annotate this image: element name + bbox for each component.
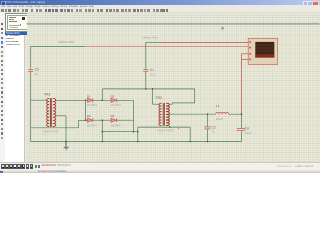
- wire C2 top branch: [207, 114, 209, 126]
- wire C4 top branch: [241, 114, 243, 128]
- minimap window: [5, 13, 29, 31]
- transformer TR1: [47, 98, 56, 127]
- junction node (102.3,131.7): [102, 131, 104, 133]
- svg-text:10uH: 10uH: [216, 117, 223, 121]
- diode D3: [88, 118, 93, 122]
- capacitor C1: [143, 69, 148, 71]
- junction node (85.5,120.2): [85, 119, 87, 121]
- marker dot: [222, 27, 224, 29]
- device list selected row: [5, 32, 27, 35]
- junction node (190.2,141.5): [189, 141, 191, 143]
- wire drop to rail right: [189, 127, 191, 141]
- svg-text:TR2: TR2: [156, 96, 163, 100]
- inductor L1: [216, 112, 229, 114]
- bottom strip: [0, 170, 320, 174]
- wire left vertical rail lower: [30, 74, 32, 141]
- wire L1 to C4 node: [229, 113, 242, 115]
- wire D3-D4: [94, 119, 111, 121]
- wire panel output vertical red: [241, 54, 243, 114]
- wire bridge bottom output vertical: [101, 120, 103, 141]
- junction node (207.5,114.2): [207, 113, 209, 115]
- schematic svg: [0, 0, 320, 173]
- wire C1 top branch: [145, 42, 147, 69]
- junction node (207.5,141.5): [207, 141, 209, 143]
- minimap blob (solar panel): [22, 17, 25, 20]
- svg-text:240Vac 50Hz: 240Vac 50Hz: [58, 40, 75, 44]
- wire C2 bottom branch: [207, 129, 209, 141]
- capacitor C2: [204, 127, 211, 129]
- wire bridge top output vertical: [101, 89, 103, 100]
- left mode icon strip: [0, 12, 5, 162]
- junction node (145.8,88.9): [145, 88, 147, 90]
- svg-text:1:1: 1:1: [44, 134, 48, 137]
- wire TR2 secondary out: [169, 113, 215, 115]
- junction node (85.5,100.3): [85, 100, 87, 102]
- wire TR1 secondary mid stub: [56, 115, 66, 117]
- wire D4 right: [117, 119, 134, 121]
- wire TR2 bottom pins: [138, 126, 190, 128]
- svg-text:1N4007: 1N4007: [111, 103, 122, 107]
- wire bridge right vertical: [133, 100, 135, 132]
- left panel: [5, 12, 27, 14]
- ground: [65, 142, 67, 147]
- wire left vertical rail upper: [30, 46, 32, 67]
- svg-text:1:1: 1:1: [159, 132, 163, 135]
- capacitor C3: [28, 68, 33, 75]
- svg-text:D1: D1: [87, 95, 91, 99]
- wire TR2 left top feed: [153, 89, 160, 104]
- wire top connector: [102, 88, 194, 90]
- wire C1 bottom branch: [145, 72, 147, 89]
- junction node (241.5,114.2): [241, 113, 243, 115]
- svg-text:TR1: TR1: [44, 92, 51, 96]
- capacitor C4: [237, 129, 245, 131]
- wire D3 row left: [79, 119, 88, 121]
- svg-text:1u: 1u: [212, 129, 216, 133]
- svg-text:+: +: [178, 126, 180, 130]
- wire bridge low horizontal: [102, 131, 138, 133]
- svg-text:2u2: 2u2: [150, 72, 155, 76]
- wire rail A red to panel pin 1: [159, 41, 248, 43]
- menu bar: [0, 5, 320, 9]
- junction node (152.6,88.9): [152, 88, 154, 90]
- junction node (102.3,141.5): [102, 141, 104, 143]
- junction node (137.8,131.7): [137, 131, 139, 133]
- wire rail A green: [146, 41, 159, 43]
- svg-text:D2: D2: [111, 95, 115, 99]
- wire bridge left vertical: [85, 100, 87, 120]
- junction node (102.3,100.3): [102, 100, 104, 102]
- wire rail B green (mains left): [31, 46, 85, 48]
- wire TR2 right top loop: [169, 89, 195, 104]
- wire TR1 mid drop to rail: [65, 116, 67, 142]
- solar panel PV1: [248, 38, 278, 64]
- wire drop to rail left: [137, 127, 139, 141]
- canvas: [27, 12, 320, 162]
- svg-text:D3: D3: [87, 114, 91, 118]
- junction node (137.8,141.5): [137, 141, 139, 143]
- wire D2 right: [117, 99, 134, 101]
- diode D1: [88, 98, 93, 102]
- wire C4 bottom branch: [241, 131, 243, 142]
- svg-text:D4: D4: [111, 114, 115, 118]
- svg-text:L1: L1: [216, 104, 220, 108]
- wire panel pin3 stub: [242, 53, 249, 55]
- svg-text:1u: 1u: [35, 72, 39, 76]
- wire rail B red to panel pin 2: [85, 46, 248, 48]
- toolbar: [0, 8, 320, 14]
- diode D4: [111, 118, 116, 122]
- junction node (169.8,127.1): [169, 126, 171, 128]
- junction node (102.3,120.2): [102, 119, 104, 121]
- diode D2: [111, 98, 116, 102]
- wire panel pin4 stub: [242, 58, 249, 60]
- minimap circuit specks: [9, 17, 16, 18]
- svg-text:1N4007: 1N4007: [87, 123, 98, 127]
- wire D1-D2: [94, 99, 111, 101]
- wire TR1 bottom riser: [78, 120, 80, 128]
- sheet border: [27, 23, 320, 25]
- svg-text:240Vac 50Hz: 240Vac 50Hz: [143, 37, 159, 40]
- junction node (133.5,131.7): [133, 131, 135, 133]
- svg-text:1N4007: 1N4007: [87, 103, 98, 107]
- wire TR1 primary bottom stub: [31, 127, 79, 129]
- status bar: [0, 162, 320, 171]
- transformer TR2: [159, 103, 170, 126]
- wire TR1 secondary top to D1: [56, 99, 87, 101]
- wire TR1 primary top stub: [31, 99, 48, 101]
- svg-text:100u: 100u: [245, 131, 252, 135]
- svg-text:1N4007: 1N4007: [111, 123, 122, 127]
- wire D3 stub left: [86, 119, 88, 121]
- window buttons: [303, 1, 309, 6]
- junction node (66,141.5): [65, 141, 67, 143]
- title bar: [0, 0, 320, 5]
- wire bottom rail: [30, 141, 241, 143]
